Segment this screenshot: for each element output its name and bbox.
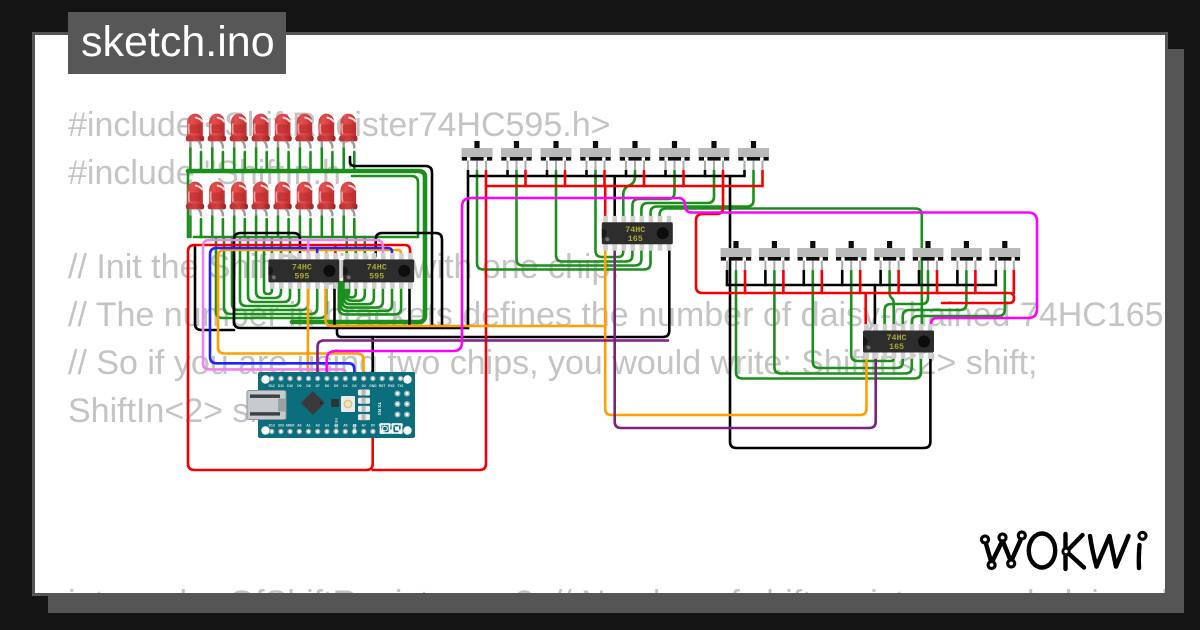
svg-text:D5: D5 <box>334 384 338 388</box>
svg-text:595: 595 <box>369 271 384 281</box>
svg-text:RESET: RESET <box>334 418 339 432</box>
svg-text:D4: D4 <box>343 384 347 388</box>
svg-text:D2: D2 <box>362 384 366 388</box>
svg-text:GND: GND <box>369 384 377 388</box>
svg-text:D13: D13 <box>269 424 275 428</box>
svg-text:AREF: AREF <box>286 424 295 428</box>
svg-text:D8: D8 <box>306 384 310 388</box>
svg-text:D9: D9 <box>297 384 301 388</box>
svg-text:D12: D12 <box>269 384 275 388</box>
svg-text:D10: D10 <box>287 384 293 388</box>
svg-text:RX0: RX0 <box>388 384 395 388</box>
svg-text:D6: D6 <box>325 384 329 388</box>
svg-text:3V3: 3V3 <box>278 424 284 428</box>
svg-text:D3: D3 <box>352 384 356 388</box>
svg-text:165: 165 <box>889 342 904 352</box>
svg-text:A1: A1 <box>306 424 310 428</box>
svg-text:A2: A2 <box>316 424 320 428</box>
svg-text:A5: A5 <box>343 424 347 428</box>
svg-text:A3: A3 <box>325 424 329 428</box>
svg-text:165: 165 <box>628 234 643 244</box>
svg-text:D11: D11 <box>278 384 284 388</box>
svg-text:ON L: ON L <box>352 424 357 435</box>
svg-text:TX1: TX1 <box>397 384 403 388</box>
svg-text:RST: RST <box>379 384 386 388</box>
svg-text:TX RX: TX RX <box>377 402 382 415</box>
svg-text:595: 595 <box>294 271 309 281</box>
svg-text:A0: A0 <box>297 424 301 428</box>
svg-text:A7: A7 <box>362 424 366 428</box>
svg-text:D7: D7 <box>316 384 320 388</box>
